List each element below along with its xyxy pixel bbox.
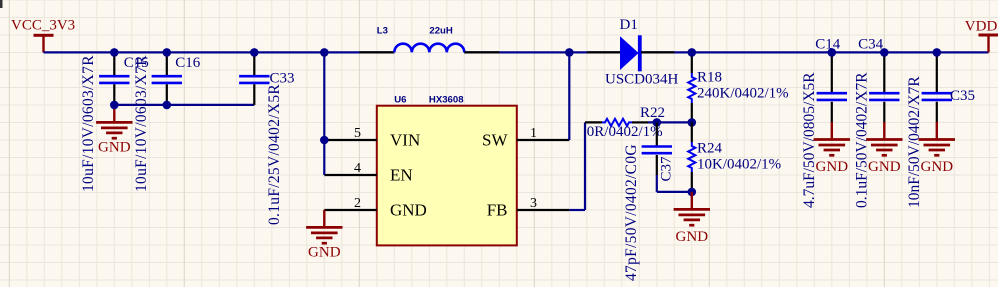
- node C16 rail junction: [163, 48, 172, 57]
- wire SW to rail: [568, 52, 570, 140]
- svg-text:VIN: VIN: [390, 131, 420, 150]
- svg-text:VDD: VDD: [965, 19, 998, 35]
- ground under C15: [96, 105, 132, 156]
- svg-text:USCD034H: USCD034H: [605, 72, 679, 88]
- capacitor C15: [80, 52, 149, 192]
- svg-text:C35: C35: [950, 88, 975, 104]
- svg-text:GND: GND: [868, 159, 901, 175]
- inductor L3: [359, 25, 499, 52]
- svg-text:0.1uF/25V/0402/X5R: 0.1uF/25V/0402/X5R: [266, 84, 283, 225]
- svg-text:C37: C37: [659, 156, 675, 182]
- pin 5 VIN: [324, 126, 377, 141]
- svg-text:2: 2: [354, 196, 361, 211]
- ground under R24: [674, 192, 710, 245]
- capacitor C37: [623, 122, 675, 281]
- node C35 rail: [933, 48, 942, 57]
- svg-text:5: 5: [354, 126, 361, 141]
- svg-text:240K/0402/1%: 240K/0402/1%: [697, 86, 789, 102]
- svg-text:U6: U6: [394, 95, 406, 106]
- diode D1: [587, 17, 679, 88]
- svg-text:GND: GND: [816, 159, 849, 175]
- svg-text:SW: SW: [482, 131, 508, 150]
- svg-text:R18: R18: [697, 70, 722, 86]
- power port VCC_3V3: [11, 18, 75, 53]
- capacitor C35: [922, 52, 952, 122]
- svg-text:GND: GND: [921, 159, 954, 175]
- svg-text:GND: GND: [98, 140, 131, 156]
- resistor R22: [585, 105, 665, 140]
- capacitor C14: [817, 52, 847, 122]
- svg-text:FB: FB: [487, 201, 508, 220]
- capacitor C34: [869, 52, 899, 122]
- svg-text:47pF/50V/0402/C0G: 47pF/50V/0402/C0G: [623, 144, 640, 281]
- wire FB to R22: [569, 122, 585, 210]
- wire inductor to diode: [464, 51, 620, 53]
- power port VDD: [965, 19, 998, 53]
- node C15 rail junction: [110, 48, 119, 57]
- svg-text:D1: D1: [620, 17, 638, 33]
- pin 4 EN: [324, 161, 377, 176]
- capacitor C16: [133, 52, 201, 192]
- node C15 bottom junction: [110, 101, 119, 110]
- svg-text:R22: R22: [640, 105, 665, 121]
- ground under C35: [919, 122, 955, 175]
- wire VCC rail to inductor: [44, 51, 395, 53]
- svg-text:GND: GND: [676, 229, 709, 245]
- svg-text:HX3608: HX3608: [429, 95, 464, 106]
- svg-text:VCC_3V3: VCC_3V3: [11, 18, 75, 34]
- resistor R24: [688, 122, 781, 191]
- svg-text:C14: C14: [815, 37, 841, 53]
- svg-text:L3: L3: [377, 25, 388, 36]
- wire cap bottom rail: [114, 104, 254, 106]
- ground under U6 pin2: [306, 210, 342, 261]
- svg-text:R24: R24: [697, 141, 723, 157]
- ground under C14: [814, 122, 850, 175]
- svg-text:10uF/10V/0603/X7R: 10uF/10V/0603/X7R: [80, 55, 97, 192]
- pin 2 GND: [324, 196, 377, 211]
- svg-text:3: 3: [530, 196, 537, 211]
- wire C37 bottom to ground node: [657, 175, 692, 192]
- sheet border corner mark: [0, 0, 3, 8]
- IC U6 HX3608: [377, 95, 517, 246]
- capacitor C33: [239, 52, 294, 225]
- node C37 top junction: [653, 118, 662, 127]
- node C14 rail: [828, 48, 837, 57]
- svg-text:10K/0402/1%: 10K/0402/1%: [697, 157, 781, 173]
- wire diode to VDD: [641, 51, 989, 53]
- svg-text:4: 4: [354, 161, 361, 176]
- svg-text:10uF/10V/0603/X7R: 10uF/10V/0603/X7R: [133, 55, 150, 192]
- svg-text:22uH: 22uH: [429, 25, 453, 36]
- resistor R18: [688, 52, 788, 122]
- svg-text:C16: C16: [175, 55, 201, 71]
- node C33 rail junction: [250, 48, 259, 57]
- ground under C34: [866, 122, 902, 175]
- node VIN-EN junction: [320, 136, 329, 145]
- svg-text:EN: EN: [390, 166, 413, 185]
- node divider ground junction: [688, 188, 697, 197]
- svg-text:10nF/50V/0402/X7R: 10nF/50V/0402/X7R: [906, 76, 923, 208]
- wire VIN branch from rail: [323, 52, 325, 175]
- node C34 rail: [880, 48, 889, 57]
- svg-text:C34: C34: [858, 37, 884, 53]
- svg-text:GND: GND: [390, 201, 427, 220]
- pin 1 SW: [517, 126, 570, 141]
- svg-text:1: 1: [530, 126, 537, 141]
- svg-text:0R/0402/1%: 0R/0402/1%: [587, 124, 663, 140]
- pin 3 FB: [517, 196, 570, 211]
- node C16 bottom junction: [163, 101, 172, 110]
- node SW rail junction: [565, 48, 574, 57]
- node VIN branch rail junction: [320, 48, 329, 57]
- wire R22 to R18/R24 node: [648, 121, 692, 123]
- svg-text:GND: GND: [308, 245, 341, 261]
- node FB divider junction: [688, 118, 697, 127]
- node rail-R18 junction: [688, 48, 697, 57]
